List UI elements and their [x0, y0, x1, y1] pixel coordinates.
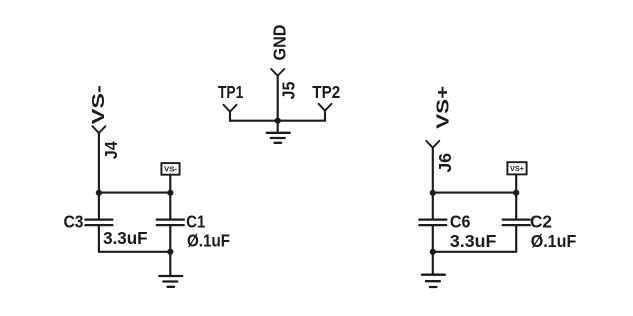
wire top rail right [433, 192, 516, 194]
junction dot right-bottom [430, 249, 436, 255]
svg-text:VS-: VS- [164, 165, 178, 174]
svg-text:Ø.1uF: Ø.1uF [531, 231, 577, 251]
connector J6 pin symbol [426, 141, 439, 148]
node VS+ (rotated net name at J6) [432, 86, 452, 129]
junction dot right-top-B [513, 190, 519, 196]
svg-text:VS-: VS- [88, 85, 108, 124]
svg-text:VS+: VS+ [510, 164, 525, 173]
svg-text:C1: C1 [186, 211, 205, 231]
wire TP1 to TP2 rail [230, 120, 325, 122]
capacitor C6 [419, 193, 446, 252]
wire J4 to top rail [98, 133, 100, 193]
test point TP1 label [218, 82, 244, 102]
junction dot left-top-A [96, 190, 102, 196]
label C2 [530, 211, 552, 231]
node VS- (rotated net name at J4) [88, 85, 108, 124]
connector J4 pin symbol [92, 126, 105, 133]
wire bottom rail right [433, 251, 516, 253]
capacitor C2 [503, 193, 530, 252]
capacitor C3 [85, 193, 112, 252]
junction dot left-bottom [167, 249, 173, 255]
test point TP2 label [312, 82, 340, 102]
node GND (rotated net name at J5) [270, 25, 290, 61]
svg-text:Ø.1uF: Ø.1uF [187, 230, 230, 250]
test point TP1 pin symbol [224, 105, 237, 112]
value 3.3uF (C3) [103, 228, 148, 248]
svg-text:3.3uF: 3.3uF [450, 231, 497, 251]
svg-text:GND: GND [270, 25, 290, 61]
label C3 [64, 211, 84, 231]
wire TP2 stem [324, 111, 326, 121]
svg-text:J4: J4 [101, 141, 121, 159]
wire bottom rail left [99, 251, 170, 253]
junction dot right-top-A [430, 190, 436, 196]
label C6 [450, 211, 471, 231]
svg-text:C3: C3 [64, 211, 84, 231]
value 3.3uF (C6) [450, 231, 497, 251]
net label box VS+ [507, 162, 526, 192]
svg-text:3.3uF: 3.3uF [103, 228, 148, 248]
connector J6 label [435, 153, 455, 173]
ground under J5 [267, 121, 290, 143]
svg-text:TP2: TP2 [312, 82, 340, 102]
svg-text:VS+: VS+ [432, 86, 452, 129]
capacitor C1 [157, 193, 184, 252]
value 0.1uF (C2) [531, 231, 577, 251]
connector J4 label [101, 141, 121, 159]
wire TP1 stem [229, 112, 231, 121]
wire J5 down [277, 76, 279, 121]
junction dot center [275, 118, 281, 124]
ground under C1 [159, 252, 182, 287]
svg-text:C2: C2 [530, 211, 552, 231]
test point TP2 pin symbol [319, 104, 332, 111]
wire J6 to top rail [432, 148, 434, 193]
junction dot left-top-B [167, 190, 173, 196]
svg-text:J5: J5 [279, 81, 299, 99]
svg-text:C6: C6 [450, 211, 471, 231]
net label box VS- [161, 163, 179, 193]
svg-text:TP1: TP1 [218, 82, 244, 102]
wire top rail left [99, 192, 170, 194]
svg-text:J6: J6 [435, 153, 455, 173]
connector J5 pin symbol [271, 69, 284, 76]
label C1 [186, 211, 205, 231]
ground under C6 [422, 252, 445, 287]
value 0.1uF (C1) [187, 230, 230, 250]
connector J5 label [279, 81, 299, 99]
